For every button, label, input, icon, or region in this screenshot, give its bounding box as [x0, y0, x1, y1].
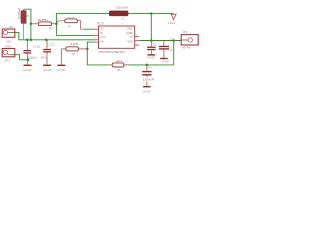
- wire IC pin4 to feedback node: [87, 42, 108, 65]
- svg-text:1k5: 1k5: [70, 42, 79, 46]
- resistor R5 22M vertical: [21, 9, 26, 40]
- svg-text:22M: 22M: [18, 8, 22, 19]
- svg-text:R6: R6: [117, 68, 121, 72]
- svg-text:GND: GND: [23, 68, 32, 72]
- op-amp IC3 box: [99, 26, 135, 48]
- svg-text:100n: 100n: [28, 55, 38, 59]
- node rail/C8 junction: [150, 12, 153, 15]
- wire W1 mic line conn1 to IC pin 3: [10, 32, 94, 39]
- wire rail right of L2 to +3V3: [128, 13, 174, 15]
- svg-text:GND: GND: [147, 56, 155, 60]
- ground under C7: [160, 58, 169, 64]
- capacitor C13: [43, 40, 51, 65]
- resistor R3: [61, 47, 87, 51]
- wire conn2 to ground A: [10, 55, 29, 60]
- svg-text:GND: GND: [162, 60, 170, 64]
- svg-text:TC: TC: [130, 35, 134, 39]
- pin numbers left: [94, 27, 96, 42]
- wire output net IC to JP3: [139, 40, 181, 42]
- wire W2 R4 right to IC pin 2: [56, 34, 93, 36]
- svg-text:L2: L2: [121, 16, 125, 20]
- ground under C9: [143, 86, 151, 93]
- svg-text:C8: C8: [153, 43, 157, 47]
- svg-text:R4: R4: [49, 26, 53, 30]
- svg-text:DWC: DWC: [127, 26, 133, 30]
- svg-text:+3V3: +3V3: [168, 21, 175, 25]
- svg-text:VCC: VCC: [100, 35, 106, 39]
- svg-text:C13: C13: [47, 43, 55, 47]
- svg-text:IS: IS: [100, 31, 103, 35]
- capacitor C7 on output: [159, 41, 169, 58]
- wire feedback R6 right to output: [128, 41, 174, 65]
- IC right pin stubs: [135, 36, 140, 45]
- svg-text:+0.4V: +0.4V: [181, 45, 191, 49]
- capacitor C11: [23, 40, 31, 60]
- svg-text:JP2: JP2: [4, 59, 10, 63]
- svg-text:3k3: 3k3: [116, 59, 122, 63]
- svg-text:R7: R7: [68, 24, 72, 28]
- node R4 right junction: [55, 23, 58, 26]
- svg-text:MIC: MIC: [7, 39, 13, 43]
- capacitor C8 on output: [147, 41, 156, 55]
- svg-text:47u: 47u: [41, 55, 48, 59]
- node mic vertical junction: [30, 39, 33, 42]
- node output/C8 junction: [150, 39, 153, 42]
- connector JP1 mic jack: [2, 29, 15, 37]
- pin labels left column: [100, 26, 106, 43]
- pin labels right column: [126, 26, 133, 43]
- svg-text:GND: GND: [5, 44, 13, 48]
- svg-text:1n: 1n: [170, 48, 174, 52]
- svg-text:R3: R3: [72, 52, 76, 56]
- node R3/R6 feedback junction: [86, 48, 89, 51]
- resistor R7 1k6 to IC pin1: [56, 19, 93, 29]
- inductor L2 220uH: [109, 11, 128, 16]
- node C11 top junction: [26, 39, 29, 42]
- svg-text:220uH: 220uH: [116, 6, 128, 10]
- svg-text:68k: 68k: [38, 18, 49, 22]
- pin numbers right: [136, 35, 138, 46]
- svg-text:FB: FB: [100, 40, 104, 44]
- wire R5 top link: [24, 9, 31, 40]
- svg-text:C7: C7: [169, 37, 173, 41]
- resistor R6 feedback: [108, 63, 128, 67]
- svg-text:1k6: 1k6: [67, 16, 76, 20]
- wire top rail from R4 node up and across to L2: [56, 14, 109, 36]
- node C9 junction: [146, 64, 149, 67]
- supply +3V3 symbol: [171, 14, 176, 20]
- ground C: [57, 49, 66, 72]
- svg-text:JP1: JP1: [8, 25, 14, 29]
- svg-text:GND: GND: [43, 68, 52, 72]
- connector JP2 gnd jack: [2, 49, 15, 57]
- node R4 left junction: [30, 23, 33, 26]
- node conn2/C11 bottom junction: [27, 59, 30, 62]
- ground A: [23, 60, 32, 72]
- svg-text:MCP6023E/SN: MCP6023E/SN: [98, 50, 125, 54]
- resistor R4 horizontal: [31, 22, 57, 26]
- capacitor C9 on feedback: [142, 65, 151, 86]
- svg-text:JP3: JP3: [182, 30, 188, 34]
- svg-text:GND: GND: [57, 68, 66, 72]
- svg-text:ENBL: ENBL: [126, 31, 133, 35]
- svg-text:100nF: 100nF: [143, 78, 155, 82]
- svg-text:DC: DC: [100, 26, 104, 30]
- node output/feedback junction: [172, 39, 175, 42]
- svg-text:C9: C9: [148, 65, 152, 69]
- wire C8 vertical rail to output: [150, 14, 152, 41]
- svg-text:GND: GND: [127, 40, 133, 44]
- ground under C8: [147, 54, 155, 59]
- node C13 top junction: [45, 39, 48, 42]
- svg-text:GND: GND: [143, 89, 151, 93]
- IC left pin stubs: [94, 29, 99, 42]
- ground B: [43, 65, 52, 72]
- svg-text:C11: C11: [33, 45, 41, 49]
- connector JP3 output jack: [181, 35, 198, 45]
- svg-text:IC3: IC3: [97, 21, 104, 25]
